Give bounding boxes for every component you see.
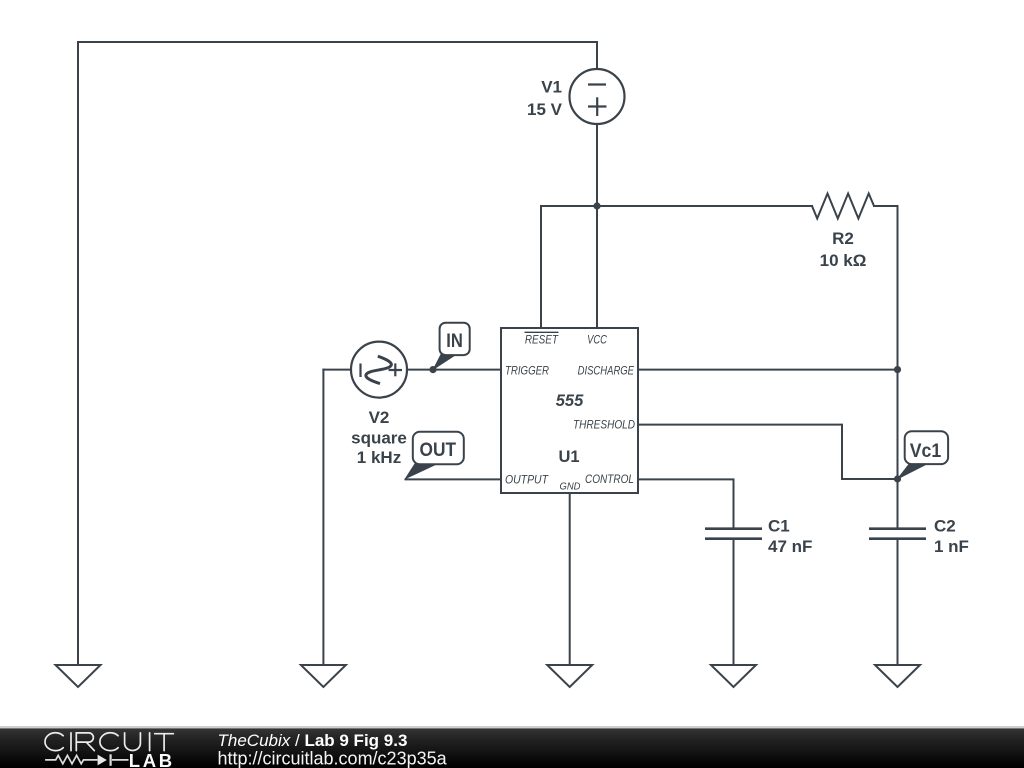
svg-text:RESET: RESET [525,333,559,347]
svg-text:TheCubix / Lab 9 Fig 9.3: TheCubix / Lab 9 Fig 9.3 [218,731,408,750]
svg-text:V2: V2 [369,408,390,427]
svg-text:15 V: 15 V [527,100,563,119]
svg-text:THRESHOLD: THRESHOLD [573,418,635,432]
svg-text:http://circuitlab.com/c23p35a: http://circuitlab.com/c23p35a [218,749,448,768]
svg-text:V1: V1 [541,78,562,97]
svg-text:IN: IN [446,331,463,352]
svg-text:square: square [351,429,407,448]
svg-text:GND: GND [560,481,581,493]
svg-text:1 nF: 1 nF [934,537,969,556]
svg-text:CONTROL: CONTROL [585,472,634,486]
svg-text:C1: C1 [768,517,790,536]
svg-text:VCC: VCC [587,333,607,347]
svg-text:1 kHz: 1 kHz [357,448,401,467]
svg-text:LAB: LAB [129,750,175,768]
svg-text:OUT: OUT [420,440,457,461]
svg-text:47 nF: 47 nF [768,537,812,556]
svg-text:U1: U1 [558,448,579,466]
svg-text:DISCHARGE: DISCHARGE [578,364,635,378]
svg-text:555: 555 [556,392,584,410]
svg-text:R2: R2 [832,229,854,248]
svg-text:TRIGGER: TRIGGER [505,364,549,378]
svg-text:C2: C2 [934,517,956,536]
svg-text:Vc1: Vc1 [910,441,942,462]
svg-text:10 kΩ: 10 kΩ [820,251,867,270]
svg-text:OUTPUT: OUTPUT [505,473,549,487]
